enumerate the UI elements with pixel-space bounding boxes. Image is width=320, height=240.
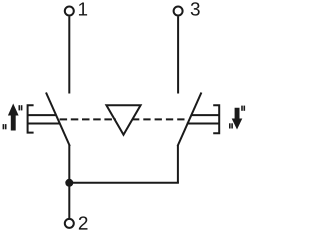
left wire down to junction: [68, 145, 70, 183]
left arrow top quote mark: [19, 105, 21, 110]
wire from terminal 1: [68, 17, 70, 94]
dashed actuator link left segment: [60, 118, 116, 120]
terminal circle 2: [65, 219, 74, 228]
right actuation arrow (down): [232, 108, 243, 130]
left actuation arrow (up): [8, 104, 19, 131]
wire from terminal 3: [177, 17, 179, 94]
right arrow top quote mark: [241, 106, 243, 111]
right fixed contact line upper: [191, 114, 219, 116]
left contact blade: [46, 93, 70, 147]
dashed actuator link right segment: [132, 118, 189, 120]
left fixed contact line upper: [28, 114, 57, 116]
junction dot: [65, 179, 73, 187]
left bracket: [28, 105, 34, 132]
terminal circle 1: [65, 7, 74, 16]
actuator triangle: [106, 105, 140, 135]
label 2: [79, 216, 88, 229]
right fixed contact line lower: [187, 123, 219, 125]
right arrow bottom quote mark: [229, 123, 231, 128]
right bracket: [213, 105, 219, 133]
wire junction to terminal 2: [68, 183, 70, 218]
left arrow bottom quote mark: [3, 124, 5, 129]
label 3: [191, 2, 200, 15]
bottom horizontal wire: [69, 182, 179, 184]
label 1: [79, 2, 87, 15]
right wire down: [177, 145, 179, 183]
terminal circle 3: [174, 7, 183, 16]
left fixed contact line lower: [28, 123, 61, 125]
right contact blade: [178, 93, 202, 147]
